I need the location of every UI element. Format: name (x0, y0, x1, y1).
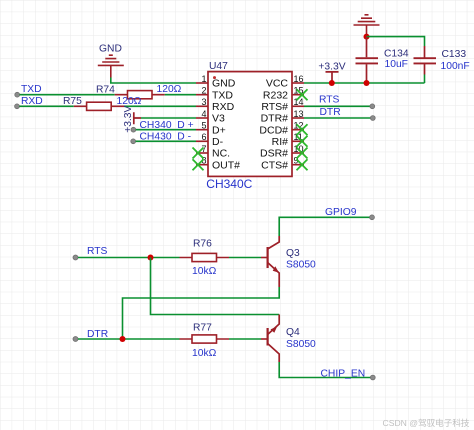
svg-text:S8050: S8050 (286, 339, 316, 350)
svg-text:DTR: DTR (320, 107, 341, 118)
svg-text:100nF: 100nF (441, 61, 470, 72)
wire RTS (pin14) (304, 105, 370, 107)
node GPIO9 (port) (325, 207, 374, 220)
node RTS (bottom port) (73, 246, 108, 260)
svg-text:V3: V3 (212, 113, 225, 125)
node DTR (bottom port) (73, 329, 108, 342)
node TXD (port) (15, 84, 42, 97)
wire GND-to-pin1 (111, 78, 196, 84)
no-connect X pin9 (297, 159, 308, 170)
wire Q3 emitter to DTR node (123, 287, 280, 339)
svg-text:13: 13 (294, 109, 304, 119)
wire D+ (136, 129, 196, 131)
svg-text:CHIP_EN: CHIP_EN (321, 368, 366, 379)
svg-text:TXD: TXD (21, 84, 42, 95)
pin 7 NC (196, 144, 230, 160)
resistor R74 (96, 84, 182, 99)
svg-text:1: 1 (201, 74, 206, 84)
pin 6 D- (196, 132, 224, 148)
svg-text:3: 3 (201, 97, 206, 107)
pin 16 VCC (266, 74, 304, 90)
node DTR (right port) (320, 107, 376, 120)
resistor R77 (180, 323, 230, 359)
transistor Q4 (261, 315, 316, 363)
svg-text:R75: R75 (63, 96, 82, 107)
svg-text:R74: R74 (96, 85, 115, 96)
pin 14 RTS# (261, 97, 304, 113)
pin 15 R232 (263, 86, 304, 102)
svg-text:R77: R77 (193, 323, 212, 334)
svg-text:GND: GND (99, 43, 122, 54)
wire R77-to-Q4 (229, 338, 261, 340)
no-connect X pin15 (297, 89, 308, 100)
pin 1 GND (196, 74, 236, 90)
wire RXD (19, 105, 73, 107)
svg-text:CSDN @驾驭电子科技: CSDN @驾驭电子科技 (383, 417, 470, 428)
svg-text:TXD: TXD (212, 89, 233, 101)
no-connect X pin12 (297, 124, 308, 135)
pin 10 DSR# (260, 144, 304, 160)
power +3.3V (top flag) (318, 61, 345, 83)
wire V3 (141, 117, 196, 119)
wire Q3 collector to GPIO9 (279, 217, 370, 236)
wire DTR row (78, 338, 180, 340)
svg-text:4: 4 (201, 109, 206, 119)
pin 11 RI# (272, 132, 304, 148)
svg-text:CTS#: CTS# (261, 159, 288, 171)
junction GND/C134 top (364, 34, 370, 40)
wire RTS row (78, 257, 180, 259)
capacitor C133 (414, 46, 470, 83)
no-connect X pin8 (193, 159, 204, 170)
resistor R75 (63, 96, 142, 110)
svg-text:D-: D- (212, 136, 224, 148)
svg-text:RXD: RXD (21, 96, 43, 107)
svg-text:C134: C134 (384, 48, 409, 59)
svg-text:2: 2 (201, 86, 206, 96)
wire top to C133 (367, 37, 425, 46)
svg-text:120Ω: 120Ω (157, 84, 182, 95)
node CH430_D- (131, 132, 191, 144)
ground GND (left flag) (98, 43, 124, 77)
capacitor C134 (356, 37, 409, 83)
svg-text:CH340C: CH340C (206, 177, 252, 191)
svg-text:Q3: Q3 (286, 248, 300, 259)
svg-text:10kΩ: 10kΩ (192, 348, 217, 359)
svg-text:R232: R232 (263, 89, 288, 101)
svg-text:10kΩ: 10kΩ (192, 266, 217, 277)
svg-text:10uF: 10uF (385, 59, 408, 70)
power +3.3V (left flag) (123, 105, 141, 132)
wire TXD (20, 94, 115, 96)
wire DTR (pin13) (304, 117, 371, 119)
svg-text:C133: C133 (442, 49, 467, 60)
wire R74-to-pin2 (165, 94, 196, 96)
wire RTS node to Q4 emitter (151, 258, 280, 315)
pin 5 D+ (196, 121, 226, 137)
svg-text:NC.: NC. (212, 148, 230, 160)
no-connect X pin10 (297, 148, 308, 159)
node RTS (right port) (319, 95, 375, 109)
svg-text:OUT#: OUT# (212, 159, 240, 171)
pin 2 TXD (196, 86, 233, 102)
svg-text:RTS#: RTS# (261, 101, 288, 113)
pin 8 OUT# (196, 156, 240, 172)
resistor R76 (180, 239, 230, 277)
pin 12 DCD# (259, 121, 304, 137)
junction RTS node (148, 255, 154, 261)
svg-text:DTR: DTR (87, 329, 108, 340)
wire Q4 collector to CHIP_EN (279, 362, 370, 378)
svg-text:Q4: Q4 (286, 327, 300, 338)
svg-text:6: 6 (201, 132, 206, 142)
pin 3 RXD (196, 97, 235, 113)
node CH340_D+ (131, 120, 194, 132)
wire D- (136, 140, 196, 142)
svg-text:RI#: RI# (272, 136, 289, 148)
svg-text:16: 16 (294, 74, 304, 84)
wire R75-to-pin3 (124, 105, 196, 107)
transistor Q3 (261, 236, 316, 287)
no-connect X pin11 (297, 136, 308, 147)
svg-text:+3.3V: +3.3V (318, 61, 345, 72)
wire VCC rail (304, 82, 425, 84)
svg-text:5: 5 (201, 121, 206, 131)
svg-text:RXD: RXD (212, 101, 235, 113)
svg-text:RTS: RTS (319, 95, 340, 106)
op-amp U1 placeholder replaced: IC U47 CH340C (206, 61, 292, 191)
junction DTR node (120, 336, 126, 342)
svg-text:VCC: VCC (266, 78, 289, 90)
ground (top flag, unlabeled) (354, 15, 380, 37)
node CHIP_EN (port) (321, 368, 376, 380)
junction C134 bottom (364, 80, 370, 86)
pin 4 V3 (196, 109, 225, 125)
no-connect X pin7 (193, 148, 204, 159)
node RXD (port) (15, 96, 43, 109)
svg-text:GND: GND (212, 78, 236, 90)
svg-text:DSR#: DSR# (260, 148, 288, 160)
pin 13 DTR# (261, 109, 304, 125)
svg-text:R76: R76 (193, 239, 212, 250)
pin 9 CTS# (261, 156, 304, 172)
wire R76-to-Q3 (229, 257, 261, 259)
svg-text:GPIO9: GPIO9 (325, 207, 357, 218)
svg-text:RTS: RTS (87, 246, 108, 257)
svg-text:S8050: S8050 (286, 260, 316, 271)
svg-text:D+: D+ (212, 124, 226, 136)
svg-text:U47: U47 (209, 61, 228, 72)
junction +3.3V/VCC (329, 80, 335, 86)
svg-text:DCD#: DCD# (259, 124, 288, 136)
svg-text:DTR#: DTR# (261, 113, 289, 125)
